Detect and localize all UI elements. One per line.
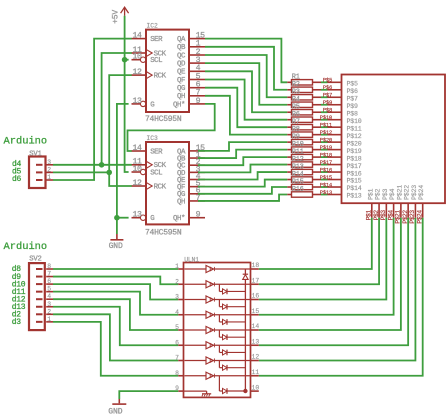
svg-text:14: 14 [132, 144, 142, 153]
svg-text:6: 6 [175, 339, 179, 346]
wire R1 to display pin P$5 [321, 81, 328, 83]
wire R3 to display pin P$7 [321, 96, 328, 98]
svg-text:P$13: P$13 [320, 189, 332, 196]
ULN1 output pin 12 stub [251, 360, 259, 362]
wire IC2 SCL to +5V rail [125, 59, 129, 61]
svg-text:9: 9 [196, 211, 201, 220]
svg-text:P$3: P$3 [382, 188, 389, 200]
svg-text:10: 10 [132, 53, 142, 62]
svg-text:QH*: QH* [173, 101, 185, 109]
IC3 pin 5 QF stub [189, 186, 205, 188]
wire display P$22 to ULN output [259, 218, 408, 345]
svg-text:16: 16 [252, 293, 260, 300]
IC3 pin 3 QD stub [189, 171, 205, 173]
ULN1 channel 6 darlington buffer [185, 344, 207, 346]
resistor R3 [287, 96, 291, 98]
ULN1 output pin 13 stub [251, 344, 259, 346]
wire R4 to display pin P$9 [321, 104, 328, 106]
resistor R1 [287, 81, 291, 83]
wire IC3 QH to R16 [198, 195, 287, 201]
svg-text:QF: QF [177, 77, 185, 85]
wire IC3 QD to R12 [198, 165, 287, 173]
svg-text:P$5: P$5 [323, 77, 332, 84]
wire SV2 pin 7 to ULN pin 2 [53, 277, 178, 285]
wire display P$1 to ULN output [259, 218, 372, 269]
svg-text:P$1: P$1 [367, 188, 374, 200]
display pin stub P$10 [328, 119, 342, 121]
svg-text:3: 3 [47, 301, 51, 308]
wire IC3 QC to R11 [198, 157, 287, 165]
ground GND symbol lower [118, 399, 120, 403]
svg-text:P$19: P$19 [320, 144, 332, 151]
IC3 RCK clock wedge [147, 183, 152, 189]
svg-text:P$17: P$17 [320, 159, 332, 166]
op-amp IC3 74HC595N box [146, 142, 189, 224]
op-amp IC2 74HC595N box [146, 30, 189, 112]
node junction RCK [106, 170, 112, 176]
svg-text:2: 2 [47, 166, 51, 173]
ULN1 freewheel diode channel 4 [218, 315, 220, 322]
resistor R11 [287, 156, 291, 158]
svg-text:P$10: P$10 [347, 118, 362, 125]
display pin stub P$14 [328, 186, 342, 188]
wire display P$23 to ULN output [259, 218, 416, 361]
ULN1 output pin 17 stub [251, 283, 259, 285]
display pin stub P$5 [328, 81, 342, 83]
transistor array ULN1 box [184, 263, 251, 398]
svg-text:15: 15 [252, 308, 260, 315]
svg-text:P$20: P$20 [347, 140, 362, 147]
svg-text:P$9: P$9 [323, 99, 332, 106]
wire SV2 pin 6 to ULN pin 3 [53, 284, 178, 299]
ULN1 input pin 4 stub [178, 314, 183, 316]
display pin stub P$18 [328, 156, 342, 158]
svg-text:2: 2 [175, 278, 179, 285]
ULN1 channel 1 darlington buffer [185, 268, 207, 270]
svg-text:d3: d3 [12, 318, 22, 327]
wire R6 to display pin P$10 [321, 119, 328, 121]
svg-text:10: 10 [252, 384, 260, 391]
IC2 pin 6 QG stub [189, 87, 205, 89]
svg-text:P$19: P$19 [347, 148, 362, 155]
svg-text:13: 13 [252, 338, 260, 345]
svg-text:14: 14 [132, 32, 142, 41]
display bottom pin stub P$21 [400, 203, 402, 218]
wire G net: IC2 pin13 down to GND [117, 104, 129, 234]
wire cascade QH* IC2 pin9 to IC3 pin14 [128, 104, 215, 151]
svg-text:Arduino: Arduino [4, 136, 48, 148]
svg-text:QG: QG [177, 85, 185, 93]
resistor R15 [287, 186, 291, 188]
wire R12 to display pin P$17 [321, 164, 328, 166]
wire IC3 QF to R14 [198, 180, 287, 187]
display LED matrix box [342, 75, 446, 204]
svg-text:9: 9 [196, 97, 201, 106]
svg-text:P$21: P$21 [396, 185, 403, 200]
svg-text:SCL: SCL [150, 169, 162, 177]
svg-text:P$15: P$15 [347, 178, 362, 185]
SV2 pin 2 stub [36, 313, 43, 315]
svg-text:QH: QH [177, 93, 185, 101]
svg-text:P$5: P$5 [347, 81, 359, 88]
svg-text:10: 10 [132, 165, 142, 174]
ULN1 pin 9 GND internal [184, 390, 207, 392]
svg-text:SER: SER [150, 36, 163, 44]
SV2 pin 7 stub [36, 276, 43, 278]
SV1 pin 1 stub [36, 179, 43, 181]
svg-text:7: 7 [47, 271, 51, 278]
resistor R8 [287, 134, 291, 136]
svg-text:12: 12 [252, 354, 260, 361]
display bottom pin stub P$3 [385, 203, 387, 218]
svg-text:5: 5 [175, 324, 179, 331]
svg-text:6: 6 [47, 278, 51, 285]
ULN1 freewheel diode channel 2 [218, 284, 220, 291]
svg-text:P$11: P$11 [320, 122, 333, 129]
svg-text:P$7: P$7 [347, 95, 359, 102]
resistor R16 [287, 194, 291, 196]
svg-text:P$15: P$15 [320, 174, 332, 181]
ULN1 input pin 2 stub [178, 283, 183, 285]
svg-text:P$18: P$18 [347, 155, 362, 162]
svg-text:QE: QE [177, 69, 186, 77]
display pin stub P$8 [328, 111, 342, 113]
SV2 pin 3 stub [36, 306, 43, 308]
wire SV2 pin 1 to ULN pin 8 [53, 322, 178, 376]
svg-text:P$13: P$13 [347, 193, 362, 200]
wire R5 to display pin P$8 [321, 111, 328, 113]
ULN1 channel 8 darlington buffer [185, 375, 207, 377]
svg-text:1: 1 [175, 263, 179, 270]
display pin stub P$15 [328, 179, 342, 181]
svg-text:RCK: RCK [154, 73, 167, 81]
SV2 pin 8 stub [36, 268, 43, 270]
svg-text:P$11: P$11 [347, 125, 362, 132]
ULN1 freewheel diode channel 7 [218, 361, 220, 368]
IC3 pin 13 G stub [132, 217, 141, 219]
display pin stub P$11 [328, 126, 342, 128]
IC3 SCK clock wedge [147, 162, 152, 168]
wire IC2 QB to R2 [205, 47, 287, 90]
svg-text:5: 5 [47, 286, 51, 293]
IC2 pin 10 SCL stub [132, 59, 141, 61]
connector SV1 box [29, 157, 46, 189]
IC2 pin 12 RCK stub [132, 74, 147, 76]
ULN1 input pin 8 stub [178, 375, 183, 377]
display bottom pin stub P$23 [414, 203, 416, 218]
IC3 pin 2 QC stub [189, 164, 205, 166]
svg-text:SCL: SCL [150, 57, 162, 65]
display pin stub P$13 [328, 194, 342, 196]
ULN1 input pin 3 stub [178, 299, 183, 301]
ULN1 freewheel diode channel 5 [218, 330, 220, 337]
svg-text:P$6: P$6 [347, 88, 359, 95]
display pin stub P$17 [328, 164, 342, 166]
wire IC2 QE to R5 [205, 71, 287, 112]
wire display P$2 to ULN output [259, 218, 379, 284]
node junction G net [114, 215, 120, 221]
ULN1 channel 5 darlington buffer [185, 329, 207, 331]
wire IC2 QF to R6 [205, 80, 287, 120]
wire IC2 QA to R1 [205, 39, 287, 83]
wire SER net: SV1 pin1 to IC2 pin14 [53, 39, 132, 180]
wire display P$24 to ULN output [259, 218, 423, 376]
SV2 pin 1 stub [36, 321, 43, 323]
wire IC2 QG to R7 [205, 88, 287, 127]
ULN1 freewheel diode channel 8 [218, 376, 220, 391]
wire IC3 QA to R9 [198, 142, 287, 151]
svg-text:P$10: P$10 [320, 114, 333, 121]
svg-text:P$14: P$14 [347, 185, 362, 192]
IC3 pin 15 QA stub [189, 150, 205, 152]
resistor R5 [287, 111, 291, 113]
wire G net branch to IC3 pin13 [117, 217, 129, 219]
IC2 pin 14 SER stub [132, 38, 147, 40]
wire R7 to display pin P$11 [321, 126, 328, 128]
svg-text:P$12: P$12 [347, 133, 362, 140]
svg-text:SV2: SV2 [29, 255, 41, 263]
IC2 pin 3 QD stub [189, 62, 205, 64]
svg-text:ULN1: ULN1 [184, 256, 199, 263]
display bottom pin stub P$4 [393, 203, 395, 218]
wire SV2 pin 2 to ULN pin 7 [53, 314, 178, 360]
svg-text:P$16: P$16 [320, 166, 332, 173]
ULN1 output pin 11 stub [251, 375, 259, 377]
display bottom pin stub P$22 [407, 203, 409, 218]
wire display P$3 to ULN output [259, 218, 387, 300]
wire IC2 QH to R8 [205, 96, 287, 135]
svg-text:P$8: P$8 [347, 110, 359, 117]
power +5V supply symbol [121, 7, 129, 13]
node junction +5V to IC2 SCL [122, 57, 128, 63]
svg-text:74HC595N: 74HC595N [145, 115, 182, 124]
svg-text:G: G [150, 215, 154, 223]
ULN1 channel 4 darlington buffer [185, 314, 207, 316]
svg-text:P$18: P$18 [320, 152, 332, 159]
wire SCK net: SV1 pin3 to IC3 pin11 horizontal [53, 164, 132, 166]
wire IC2 QC to R3 [205, 55, 287, 97]
IC3 pin 14 SER stub [132, 150, 147, 152]
svg-text:QH*: QH* [173, 215, 185, 223]
svg-text:3: 3 [47, 159, 51, 166]
ULN1 input pin 6 stub [178, 344, 183, 346]
svg-text:1: 1 [47, 174, 51, 181]
svg-text:P$6: P$6 [323, 84, 332, 91]
display bottom pin stub P$1 [371, 203, 373, 218]
svg-text:+5V: +5V [112, 10, 121, 24]
svg-text:QB: QB [177, 44, 186, 52]
resistor R7 [287, 126, 291, 128]
wire SV2 pin 4 to ULN pin 5 [53, 299, 178, 330]
ULN1 freewheel diode channel 3 [218, 300, 220, 307]
svg-text:IC2: IC2 [146, 22, 158, 29]
ULN1 top freewheel diode [243, 273, 248, 275]
svg-text:18: 18 [252, 262, 260, 269]
ULN1 output pin 16 stub [251, 299, 259, 301]
ULN1 input pin 7 stub [178, 360, 183, 362]
svg-text:RCK: RCK [154, 183, 167, 191]
ground GND symbol upper [116, 234, 118, 239]
wire R13 to display pin P$16 [321, 171, 328, 173]
wire R2 to display pin P$6 [321, 89, 328, 91]
resistor R4 [287, 104, 291, 106]
ULN1 COM rail junction [243, 389, 247, 393]
svg-text:QA: QA [177, 36, 186, 44]
display pin stub P$9 [328, 104, 342, 106]
svg-text:2: 2 [47, 308, 51, 315]
wire display P$21 to ULN output [259, 218, 401, 330]
wire SCK net: vertical up to IC2 pin11 [102, 53, 132, 165]
IC2 pin 5 QF stub [189, 79, 205, 81]
ULN1 output pin 18 stub [251, 268, 259, 270]
display pin stub P$6 [328, 89, 342, 91]
svg-text:8: 8 [175, 370, 179, 377]
ULN1 pin 9 stub [178, 390, 183, 392]
svg-text:G: G [150, 101, 154, 109]
ULN1 pin 10 stub [251, 390, 259, 392]
wire SV2 pin 8 to ULN pin 1 [53, 268, 178, 270]
SV1 pin 3 stub [36, 164, 43, 166]
wire IC3 QB to R10 [198, 150, 287, 158]
svg-text:IC3: IC3 [146, 135, 158, 142]
ULN1 output pin 14 stub [251, 329, 259, 331]
wire R8 to display pin P$12 [321, 134, 328, 136]
wire IC3 QG to R15 [198, 187, 287, 194]
svg-text:QD: QD [177, 61, 186, 69]
svg-text:14: 14 [252, 323, 260, 330]
wire R14 to display pin P$15 [321, 179, 328, 181]
svg-text:1: 1 [47, 316, 51, 323]
svg-text:P$8: P$8 [323, 107, 332, 114]
resistor R12 [287, 164, 291, 166]
IC2 pin 11 SCK stub [132, 52, 147, 54]
svg-text:SV1: SV1 [29, 151, 41, 159]
svg-text:7: 7 [175, 355, 179, 362]
IC2 pin 15 QA stub [189, 38, 205, 40]
wire R11 to display pin P$18 [321, 156, 328, 158]
svg-text:12: 12 [132, 68, 142, 77]
ULN1 channel 7 darlington buffer [185, 360, 207, 362]
svg-text:74HC595N: 74HC595N [145, 228, 182, 237]
node junction SCK [99, 162, 105, 168]
svg-text:P$20: P$20 [320, 137, 333, 144]
connector SV2 box [29, 263, 45, 330]
resistor R13 [287, 171, 291, 173]
display pin stub P$7 [328, 96, 342, 98]
ULN1 output pin 15 stub [251, 314, 259, 316]
svg-text:P$17: P$17 [347, 163, 362, 170]
SV2 pin 4 stub [36, 298, 43, 300]
wire +5V rail from symbol down to IC3 SCL [125, 16, 129, 172]
IC3 pin 11 SCK stub [132, 164, 147, 166]
wire ULN1 pin9 to ground [119, 391, 178, 399]
display bottom pin stub P$24 [422, 203, 424, 218]
wire R15 to display pin P$14 [321, 186, 328, 188]
svg-text:13: 13 [132, 97, 142, 106]
ULN1 freewheel diode channel 6 [218, 345, 220, 352]
svg-text:P$9: P$9 [347, 103, 359, 110]
svg-text:P$24: P$24 [418, 185, 425, 200]
ULN1 COM rail [244, 269, 246, 274]
IC3 pin 6 QG stub [189, 193, 205, 195]
resistor R2 [287, 89, 291, 91]
IC3 pin 10 SCL stub [132, 171, 141, 173]
svg-text:GND: GND [108, 408, 122, 417]
SV2 pin 5 stub [36, 291, 43, 293]
resistor R14 [287, 179, 291, 181]
resistor R9 [287, 141, 291, 143]
wire RCK net: vertical IC2 pin12 to IC3 pin12 [109, 75, 132, 186]
IC2 SCK clock wedge [147, 50, 152, 56]
display pin stub P$19 [328, 149, 342, 151]
IC2 pin 4 QE stub [189, 70, 205, 72]
display bottom pin stub P$2 [378, 203, 380, 218]
svg-text:P$16: P$16 [347, 170, 362, 177]
svg-text:3: 3 [175, 294, 179, 301]
svg-text:P$14: P$14 [320, 181, 333, 188]
svg-text:P$7: P$7 [323, 92, 332, 99]
wire R10 to display pin P$19 [321, 149, 328, 151]
wire display P$4 to ULN output [259, 218, 394, 315]
IC2 pin 7 QH stub [189, 95, 205, 97]
svg-text:17: 17 [252, 277, 260, 284]
resistor R6 [287, 119, 291, 121]
svg-text:13: 13 [132, 211, 142, 220]
svg-text:QC: QC [177, 52, 186, 60]
IC3 pin 9 QH* stub [189, 217, 205, 219]
resistor R10 [287, 149, 291, 151]
IC2 pin 13 G stub [132, 103, 141, 105]
IC2 RCK clock wedge [147, 72, 152, 78]
IC2 pin 9 QH* stub [189, 103, 205, 105]
wire RCK net: SV1 pin2 to junction [53, 171, 109, 173]
wire R16 to display pin P$13 [321, 194, 328, 196]
SV2 pin 6 stub [36, 283, 43, 285]
display pin stub P$16 [328, 171, 342, 173]
IC3 pin 4 QE stub [189, 179, 205, 181]
wire SV2 pin 5 to ULN pin 4 [53, 292, 178, 315]
display pin stub P$12 [328, 134, 342, 136]
svg-text:P$4: P$4 [389, 188, 396, 200]
svg-text:GND: GND [109, 242, 123, 251]
svg-text:P$23: P$23 [411, 185, 418, 200]
svg-text:8: 8 [47, 263, 51, 270]
svg-text:P$22: P$22 [404, 185, 411, 200]
wire IC3 QE to R13 [198, 172, 287, 179]
wire SV2 pin 3 to ULN pin 6 [53, 307, 178, 346]
svg-text:P$2: P$2 [375, 188, 382, 200]
svg-text:QH: QH [177, 198, 185, 206]
ULN1 input pin 1 stub [178, 268, 183, 270]
svg-text:4: 4 [47, 293, 51, 300]
wire IC2 QD to R4 [205, 63, 287, 105]
ULN1 input pin 5 stub [178, 329, 183, 331]
ULN1 channel 2 darlington buffer [185, 283, 207, 285]
svg-text:SER: SER [150, 148, 163, 156]
svg-text:P$12: P$12 [320, 129, 332, 136]
IC3 pin 7 QH stub [189, 200, 205, 202]
svg-text:Arduino: Arduino [4, 241, 48, 253]
svg-text:4: 4 [175, 309, 179, 316]
IC3 pin 12 RCK stub [132, 185, 147, 187]
IC3 pin 1 QB stub [189, 157, 205, 159]
svg-text:d6: d6 [12, 175, 22, 184]
IC2 pin 1 QB stub [189, 46, 205, 48]
svg-text:12: 12 [132, 179, 142, 188]
svg-text:11: 11 [252, 369, 260, 376]
SV1 pin 2 stub [36, 171, 43, 173]
display pin stub P$20 [328, 141, 342, 143]
